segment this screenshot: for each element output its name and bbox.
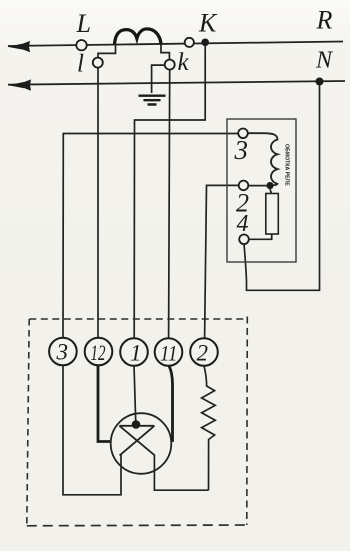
junction dot N xyxy=(316,78,324,86)
wire: phase line N xyxy=(8,81,345,85)
svg-text:R: R xyxy=(316,6,333,35)
lamp contact dot xyxy=(132,420,141,429)
junction dot K xyxy=(201,39,209,47)
wire: phase line R xyxy=(8,42,343,47)
svg-text:L: L xyxy=(76,9,91,38)
wire relay 2 to junction xyxy=(248,185,266,187)
meter terminal 3 xyxy=(49,338,77,366)
wire terminal 1 to lamp dot xyxy=(134,365,136,421)
ground symbol xyxy=(139,96,166,105)
wire terminal 3 to relay terminal 3 xyxy=(63,134,239,340)
svg-text:12: 12 xyxy=(91,340,106,365)
secondary lead l xyxy=(98,45,116,59)
svg-text:2: 2 xyxy=(197,341,209,366)
wire relay terminal 4 to line N xyxy=(244,86,320,291)
wire l to terminal 12 xyxy=(97,67,99,339)
svg-text:K: K xyxy=(198,8,218,37)
relay coil xyxy=(248,133,278,185)
svg-text:4: 4 xyxy=(237,211,249,237)
ground branch wire xyxy=(152,65,165,93)
meter terminal 2 xyxy=(190,338,218,366)
svg-text:ОБМОТКА РЕЛЕ: ОБМОТКА РЕЛЕ xyxy=(284,144,290,186)
lamp chord xyxy=(119,425,154,427)
svg-text:11: 11 xyxy=(160,341,178,366)
terminal k xyxy=(165,60,175,70)
terminal l xyxy=(93,58,103,68)
relay terminal 2 xyxy=(239,181,249,191)
wire terminal 11 to lamp (thick) xyxy=(169,366,173,441)
svg-text:N: N xyxy=(315,47,334,73)
wire lamp to resistor bottom xyxy=(154,455,208,490)
dashed meter box xyxy=(29,318,248,320)
transformer primary winding xyxy=(115,29,162,44)
terminal K xyxy=(185,38,194,47)
wire k to terminal 11 xyxy=(169,69,170,338)
relay resistor xyxy=(270,189,272,193)
svg-text:l: l xyxy=(77,51,84,78)
relay terminal 4 xyxy=(239,235,249,245)
wire K junction to terminal 1 xyxy=(134,46,205,339)
svg-text:3: 3 xyxy=(234,135,249,165)
relay terminal 3 xyxy=(238,129,248,139)
wire relay terminal 2 to terminal 2 xyxy=(205,185,239,338)
relay junction dot xyxy=(266,182,273,189)
lamp circle xyxy=(111,413,172,474)
meter terminal 11 xyxy=(155,338,183,366)
terminal L xyxy=(76,40,86,50)
wire terminal 12 to lamp (thick) xyxy=(98,365,111,442)
meter terminal 12 xyxy=(85,338,113,366)
relay box xyxy=(227,119,296,262)
arrow on N xyxy=(8,82,24,88)
secondary lead k xyxy=(161,44,169,60)
lamp cross xyxy=(119,426,154,456)
meter terminal 1 xyxy=(120,338,148,366)
svg-text:3: 3 xyxy=(56,340,69,365)
svg-text:1: 1 xyxy=(130,341,142,366)
resistor (zigzag) from terminal 2 xyxy=(202,366,216,490)
svg-text:k: k xyxy=(178,49,190,76)
wire lamp to terminal 3 loop xyxy=(63,365,121,495)
arrow on R xyxy=(7,44,23,50)
